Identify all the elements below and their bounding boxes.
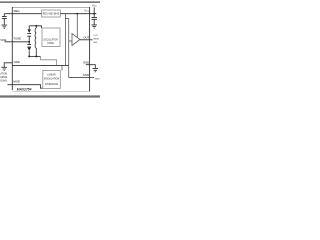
IC outline bottom edge bbox=[12, 91, 89, 93]
ground for C2 bbox=[91, 25, 97, 28]
svg-text:LINEAR: LINEAR bbox=[47, 73, 56, 76]
wire tank bottom staircase bbox=[41, 56, 57, 65]
wire step between drops bbox=[65, 18, 68, 20]
wire buffer output to OUT pin bbox=[80, 39, 93, 41]
varactor D1 anode lead bbox=[28, 26, 30, 30]
op-amp buffer A1 bbox=[72, 34, 80, 46]
varactor D2 anode lead bbox=[28, 51, 30, 57]
svg-text:GND: GND bbox=[14, 60, 20, 64]
wire GND right pin bbox=[86, 65, 96, 69]
varactor D1 cathode bars bbox=[27, 33, 31, 36]
wire modulation block to ground bus bbox=[61, 65, 63, 70]
svg-text:INTERFACE: INTERFACE bbox=[45, 83, 59, 86]
capacitor C2 bbox=[92, 17, 98, 19]
svg-text:SOURCE: SOURCE bbox=[0, 77, 8, 79]
varactor D2 cathode lead bbox=[28, 42, 30, 45]
svg-text:OUT: OUT bbox=[93, 35, 98, 37]
varactor D1 cathode lead bbox=[28, 36, 30, 41]
svg-text:GND: GND bbox=[83, 60, 89, 64]
svg-text:GND: GND bbox=[83, 73, 89, 77]
svg-text:MAX2754: MAX2754 bbox=[17, 87, 32, 91]
varactor D1 bbox=[27, 29, 31, 32]
svg-text:MODULATION: MODULATION bbox=[0, 72, 8, 75]
block U3 LINEAR MODULATION INTERFACE bbox=[43, 71, 61, 89]
internal ground bus bbox=[12, 64, 68, 66]
wire REG pin to bias block bbox=[4, 13, 41, 15]
wire GND left pin bbox=[4, 63, 12, 67]
inductor L1 bottom lead bbox=[35, 48, 37, 56]
svg-text:MODULATION: MODULATION bbox=[44, 77, 60, 80]
svg-text:VCC: VCC bbox=[84, 9, 89, 13]
block U1 REG AND BIAS bbox=[42, 10, 61, 17]
wire VCC rail bbox=[60, 13, 96, 15]
capacitor C1 bottom lead bbox=[3, 19, 5, 25]
varactor D2 cathode bars bbox=[27, 45, 31, 47]
inductor L1 top lead bbox=[35, 26, 37, 28]
wire tank top rail bbox=[29, 26, 41, 28]
wire buffer input tick bbox=[69, 40, 72, 42]
svg-text:REG AND BIAS: REG AND BIAS bbox=[43, 12, 60, 15]
ground right bbox=[93, 69, 99, 72]
IC outline top edge bbox=[12, 6, 89, 8]
wire MOD pin to modulation block bbox=[8, 85, 43, 89]
svg-text:GND: GND bbox=[95, 78, 100, 80]
node VCC internal junction bbox=[76, 13, 78, 15]
varactor D2 bbox=[27, 47, 31, 50]
wire tank bottom rail bbox=[29, 55, 40, 57]
svg-text:MOD: MOD bbox=[13, 80, 20, 84]
inductor L1 bbox=[35, 28, 36, 48]
svg-text:REG: REG bbox=[14, 9, 20, 13]
capacitor C1 lead bbox=[3, 14, 5, 17]
figure frame bottom rule bbox=[0, 95, 100, 97]
svg-text:VCC: VCC bbox=[92, 4, 97, 8]
svg-text:OSCILLATOR: OSCILLATOR bbox=[43, 38, 58, 41]
svg-text:900M: 900M bbox=[93, 38, 99, 40]
wire lower pin horizontal bbox=[69, 77, 95, 79]
node tank bottom coil junction bbox=[35, 55, 37, 57]
wire TUNE bbox=[5, 41, 30, 43]
VCC supply stub bbox=[93, 7, 95, 13]
capacitor C2 top lead bbox=[93, 14, 95, 17]
node tune junction bbox=[28, 41, 30, 43]
figure frame top border bbox=[0, 1, 100, 3]
IC outline right edge bbox=[89, 7, 91, 92]
ground for C1 bbox=[2, 25, 8, 28]
wire bias drop B bbox=[68, 19, 70, 78]
IC outline left edge bbox=[11, 7, 13, 90]
block U2 OSCILLATOR CORE bbox=[42, 28, 60, 47]
svg-text:TUNE: TUNE bbox=[13, 36, 21, 40]
node VCC external junction bbox=[93, 13, 95, 15]
svg-text:OUT: OUT bbox=[83, 35, 89, 39]
node tank bottom left junction bbox=[28, 55, 30, 57]
ground left bbox=[1, 67, 7, 70]
svg-text:CORE: CORE bbox=[47, 43, 54, 45]
wire bias drop A bbox=[64, 14, 66, 66]
wire VCC drop to buffer bbox=[76, 14, 78, 38]
capacitor C1 bbox=[2, 17, 7, 19]
node tank top junction bbox=[35, 25, 37, 27]
capacitor C2 bottom lead bbox=[93, 20, 95, 25]
svg-text:50Ω: 50Ω bbox=[93, 42, 97, 44]
svg-text:SIGNAL: SIGNAL bbox=[0, 79, 8, 82]
